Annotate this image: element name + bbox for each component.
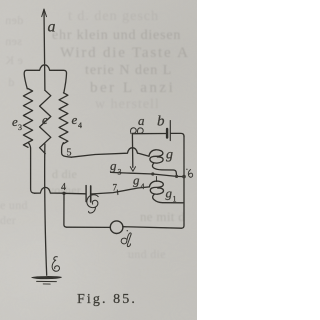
- wire: e4 bottom to node 5 and right toward coil g: [62, 143, 72, 158]
- tap wire with dots: [111, 172, 184, 176]
- meter label (script with dots): [121, 230, 131, 247]
- resistor e3: [23, 89, 32, 148]
- resistor e4: [59, 93, 68, 144]
- branch bar with hop over antenna wire: [24, 65, 66, 93]
- coil g (upper): [149, 150, 163, 163]
- junction dot: [151, 172, 154, 175]
- faint show-through / cropped text fragments: [68, 9, 159, 25]
- wiper arrowhead (points down at tap wire): [130, 167, 135, 172]
- wire: hop over ground wire, to node 4: [35, 187, 64, 193]
- wire: e3 bottom down to lower-left corner: [28, 143, 34, 194]
- key/contact a loops on battery branch: [131, 128, 144, 134]
- wire: capacitor to coil g1, with tick 7: [91, 187, 149, 194]
- wire: ground lead (middle resistor e down to earth): [45, 144, 47, 275]
- wire: battery to right rail: [171, 133, 184, 136]
- earth/ground symbol: [32, 276, 62, 284]
- coil g1 exit to rail: [153, 194, 183, 203]
- wire: node 4 to capacitor: [64, 192, 86, 195]
- terminal label (small script d with dot): [186, 169, 193, 178]
- wire: antenna shaft through hop down to resistor e: [44, 65, 46, 91]
- coil g exit to tap wire: [152, 163, 176, 176]
- battery b: long thin plate: [169, 121, 171, 141]
- label E (earth, script): [52, 257, 59, 272]
- coil g1 stub from tap wire: [155, 177, 157, 182]
- capacitor C plates: [85, 186, 87, 202]
- wire: battery branch vertical + wiper arrow g3: [131, 134, 133, 168]
- antenna arrow (up): [42, 9, 47, 64]
- wire: bottom left segment: [67, 226, 111, 228]
- coil g1 (lower): [149, 181, 163, 194]
- wire: node5 lead with hop over key shaft: [71, 148, 149, 158]
- wire: bottom right segment: [123, 227, 181, 229]
- wire: node 4 vertical down to bottom wire: [64, 193, 67, 227]
- tick mark at 7: [116, 190, 119, 195]
- junction dot: [175, 175, 178, 178]
- junction dot on rail / terminal: [182, 175, 186, 179]
- resistor e (middle, coarse zigzag): [40, 90, 51, 153]
- node 4 dot: [62, 192, 65, 195]
- battery b: short thick plate: [166, 129, 168, 138]
- caption Fig. 85.: [77, 292, 137, 308]
- wire: battery branch row: [132, 133, 166, 135]
- meter (circle instrument): [110, 221, 123, 234]
- wire: right rail: [181, 136, 184, 228]
- label C (script): [87, 195, 98, 213]
